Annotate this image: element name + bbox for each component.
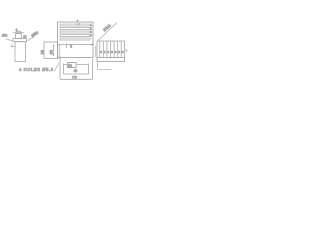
side box inner dim line bbox=[53, 45, 55, 57]
svg-text:45: 45 bbox=[74, 69, 78, 73]
tiny ticks below top edge bbox=[77, 23, 79, 25]
svg-text:1: 1 bbox=[90, 23, 92, 27]
svg-text:Ø50: Ø50 bbox=[30, 29, 40, 38]
svg-text:3: 3 bbox=[108, 50, 110, 54]
bottom dim line 1 bbox=[64, 64, 89, 66]
svg-text:Ø2: Ø2 bbox=[2, 33, 8, 38]
svg-text:4: 4 bbox=[90, 34, 92, 38]
dim1 text box bbox=[68, 63, 77, 68]
bottom dims outer U bbox=[60, 56, 93, 79]
knob cap flange bbox=[13, 39, 27, 42]
svg-text:3: 3 bbox=[104, 50, 106, 54]
main front view rectangle bbox=[58, 22, 94, 58]
knob nub bbox=[16, 34, 22, 39]
svg-text:52: 52 bbox=[68, 64, 72, 68]
mid divider line bbox=[58, 44, 94, 46]
lower inner wall line bbox=[59, 45, 61, 58]
comb below extension bbox=[98, 62, 112, 70]
knob top dim line bbox=[13, 32, 24, 34]
svg-text:25: 25 bbox=[40, 49, 45, 54]
divider tick bbox=[66, 44, 68, 49]
note leader bbox=[55, 64, 59, 72]
vent slot 1 bbox=[60, 24, 90, 26]
svg-text:4 HOLES Ø5.0: 4 HOLES Ø5.0 bbox=[19, 67, 54, 72]
svg-text:30±1: 30±1 bbox=[102, 22, 113, 32]
knob body bbox=[15, 42, 26, 62]
svg-text:3: 3 bbox=[90, 30, 92, 34]
leader right of knob bbox=[23, 35, 27, 39]
svg-text:3: 3 bbox=[100, 50, 102, 54]
svg-text:3: 3 bbox=[115, 50, 117, 54]
right inner dim line bbox=[95, 46, 97, 58]
side box bbox=[44, 42, 58, 59]
comb section top edge bbox=[97, 40, 125, 42]
divider right arrow blob bbox=[92, 44, 94, 46]
comb base bar bbox=[97, 58, 125, 62]
svg-text:3: 3 bbox=[122, 50, 124, 54]
svg-text:C3: C3 bbox=[72, 76, 77, 80]
svg-text:5:: 5: bbox=[24, 35, 27, 39]
vent slot 3 bbox=[60, 31, 90, 33]
svg-text:2: 2 bbox=[90, 27, 92, 31]
comb leader bbox=[97, 23, 117, 42]
vent slot 5 bbox=[60, 38, 90, 40]
knob tip bbox=[17, 32, 21, 34]
side box dim arrowheads bbox=[53, 45, 55, 57]
leader left of knob bbox=[6, 39, 14, 41]
tick outside comb right edge bbox=[126, 49, 127, 52]
center-left leader line bbox=[28, 37, 35, 41]
knob left tick bbox=[11, 44, 16, 48]
vent slot 2 bbox=[60, 28, 90, 30]
svg-text:3: 3 bbox=[111, 50, 113, 54]
comb fin v-lines bbox=[96, 41, 98, 58]
vent slot 4 bbox=[60, 35, 90, 37]
svg-text:3: 3 bbox=[118, 50, 120, 54]
bottom dims inner U bbox=[64, 64, 89, 75]
svg-text:35: 35 bbox=[49, 49, 54, 54]
svg-text:2: 2 bbox=[70, 44, 72, 48]
